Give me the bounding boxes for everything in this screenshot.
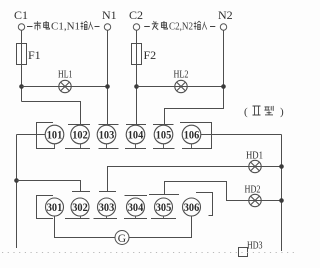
perforation dotted line	[2, 252, 296, 254]
wire 301 to G	[55, 216, 116, 238]
node dot N1/HL1	[105, 84, 110, 89]
terminal circle 105	[154, 125, 173, 144]
terminal N2	[220, 24, 226, 30]
bracket 101	[37, 123, 56, 149]
square HD3	[239, 248, 248, 257]
wire 106 right to right bus	[201, 134, 282, 136]
svg-text:104: 104	[128, 130, 144, 142]
fuse F1	[17, 44, 27, 65]
terminal circle 103	[97, 125, 116, 144]
svg-text:N2: N2	[218, 8, 233, 22]
terminal circle 104	[126, 125, 145, 144]
bar under 305	[151, 218, 176, 220]
bar under 103	[99, 148, 119, 150]
bar under 302	[65, 218, 90, 220]
svg-text:303: 303	[99, 202, 115, 214]
terminal circle 106	[182, 125, 201, 144]
fuse F2	[132, 44, 142, 65]
svg-text:C1,N1: C1,N1	[51, 22, 80, 33]
left bus vertical	[16, 135, 18, 249]
(II型) text	[244, 106, 284, 118]
lamp HD1	[246, 151, 263, 173]
bracket 106	[180, 123, 212, 149]
wire C2 vertical	[136, 30, 138, 124]
lamp HL2	[174, 70, 189, 93]
terminal circle 101	[45, 125, 64, 144]
terminal C2	[133, 24, 139, 30]
svg-text:HD3: HD3	[247, 240, 263, 251]
svg-text:): )	[280, 106, 284, 118]
wire N1 vertical	[107, 30, 109, 124]
svg-text:306: 306	[184, 202, 200, 214]
bar under 304	[124, 218, 147, 220]
bar over 305	[149, 194, 179, 196]
terminal circle 303	[98, 198, 116, 216]
svg-text:103: 103	[99, 130, 115, 142]
svg-text:105: 105	[156, 130, 172, 142]
wire G to 306	[129, 216, 192, 238]
terminal circle 301	[46, 198, 64, 216]
node dot HD2/right bus	[279, 198, 284, 203]
header text 发电C2,N2输入	[144, 21, 215, 33]
svg-text:HL2: HL2	[174, 70, 189, 81]
bar over 103	[99, 124, 119, 126]
node dot C1/HL1	[19, 84, 24, 89]
right bus vertical	[281, 135, 283, 252]
bar over 102	[68, 124, 90, 126]
terminal circle 102	[71, 125, 90, 144]
svg-text:HL1: HL1	[58, 70, 73, 81]
svg-text:101: 101	[47, 130, 63, 142]
wire C1 vertical	[21, 30, 23, 101]
bar over 105	[153, 124, 174, 126]
ticks under row2 circles	[81, 216, 164, 219]
bar under 303	[94, 218, 118, 220]
svg-text:F1: F1	[28, 48, 41, 62]
generator G	[115, 231, 129, 245]
terminal circle 302	[71, 198, 89, 216]
bar over 304	[125, 195, 148, 197]
header text 市电C1,N1输入	[27, 21, 100, 33]
svg-text:G: G	[118, 233, 126, 245]
terminal N1	[104, 24, 110, 30]
wire C1 bend to 102	[22, 102, 81, 125]
wire 101 left	[17, 134, 46, 136]
node dot C2/HL2	[134, 84, 139, 89]
bracket 306	[196, 193, 213, 216]
svg-text:C1: C1	[14, 8, 28, 22]
lamp HD2	[245, 185, 262, 207]
terminal circle 305	[155, 198, 173, 216]
terminal circle 304	[127, 198, 145, 216]
node dot HD1/right bus	[279, 164, 284, 169]
svg-text:(: (	[244, 106, 248, 118]
svg-text:304: 304	[128, 202, 144, 214]
svg-text:301: 301	[47, 202, 63, 214]
node dot N2/HL2	[221, 84, 226, 89]
svg-text:305: 305	[156, 202, 172, 214]
svg-text:F2: F2	[144, 48, 157, 62]
svg-text:102: 102	[72, 130, 88, 142]
bracket 301	[37, 196, 54, 219]
terminal circle 306	[183, 198, 201, 216]
svg-text:C2,N2: C2,N2	[169, 22, 193, 33]
wire HL2 horizontal	[137, 86, 224, 88]
bar under 105	[153, 148, 175, 150]
bar under 104	[125, 148, 146, 150]
lamp HL1	[58, 70, 73, 93]
terminal C1	[18, 24, 24, 30]
svg-text:HD2: HD2	[245, 185, 261, 196]
bar over 302	[72, 191, 90, 193]
wire N2 vertical and bend to 105	[165, 30, 224, 124]
bar over 104	[126, 124, 146, 126]
bar under 102	[65, 148, 90, 150]
wire HD2 feeder	[165, 182, 282, 201]
wire branch to 302	[17, 181, 81, 192]
bar over 303	[99, 191, 116, 193]
wire HD1 feeder	[108, 167, 282, 192]
svg-text:106: 106	[184, 130, 200, 142]
svg-text:C2: C2	[129, 8, 143, 22]
svg-text:HD1: HD1	[246, 151, 263, 162]
ticks under row1 circles	[55, 144, 192, 149]
wire HL1 horizontal	[22, 86, 108, 88]
node dot left bus	[14, 178, 19, 183]
svg-text:302: 302	[72, 202, 88, 214]
svg-text:N1: N1	[102, 8, 117, 22]
